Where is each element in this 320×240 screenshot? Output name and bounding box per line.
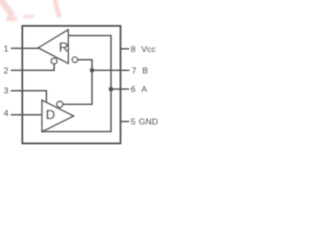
pin 3 wire (DE to D top edge): [11, 91, 47, 103]
svg-text:D: D: [46, 107, 55, 122]
pin 6 wire A: [111, 88, 129, 90]
pin 4 wire (DI to D base): [11, 114, 42, 116]
svg-text:7: 7: [132, 65, 137, 75]
svg-text:4: 4: [4, 108, 9, 118]
wire net B loop: R inverting input to pin 7 and D inverting output: [63, 60, 92, 105]
svg-text:A: A: [141, 84, 147, 94]
svg-text:8: 8: [131, 44, 136, 54]
svg-text:B: B: [142, 65, 148, 75]
svg-text:5: 5: [131, 117, 136, 127]
watermark stroke left diagonal: [0, 0, 17, 19]
receiver inverting input bubble: [72, 57, 77, 62]
driver inverting output bubble: [57, 101, 63, 107]
driver D triangle: [42, 100, 74, 131]
node A junction dot: [109, 87, 114, 92]
receiver R triangle: [38, 30, 68, 64]
watermark dash: [23, 14, 35, 19]
svg-text:Vcc: Vcc: [141, 44, 156, 54]
svg-text:2: 2: [4, 65, 9, 75]
pin 7 wire B: [92, 69, 129, 71]
pin 1 wire (RO to R apex): [11, 47, 39, 49]
svg-text:1: 1: [4, 43, 9, 53]
pin 2 wire (/RE to enable bubble stem): [11, 64, 54, 70]
receiver enable bubble: [51, 58, 57, 64]
IC body rectangle: [22, 26, 120, 143]
node B junction dot: [90, 68, 95, 73]
watermark right stroke: [55, 0, 60, 17]
wire net A loop: R upper input to pin 6 and D lower output: [42, 36, 111, 132]
svg-text:R: R: [59, 40, 68, 55]
svg-text:GND: GND: [139, 117, 158, 127]
pin 8 stub Vcc: [121, 48, 130, 50]
pin 5 stub GND: [121, 121, 130, 123]
svg-text:3: 3: [4, 86, 9, 96]
svg-text:6: 6: [131, 84, 136, 94]
